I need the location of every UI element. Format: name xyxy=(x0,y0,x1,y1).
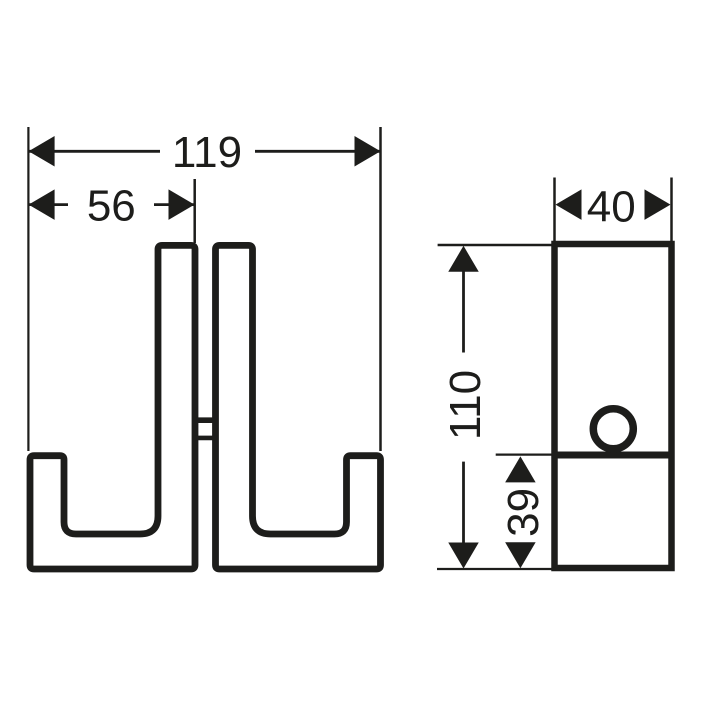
dimension 39 top arrow xyxy=(505,456,536,482)
dimension 110 bottom arrow xyxy=(448,543,479,569)
front view: right hook profile (mirror) xyxy=(216,245,381,569)
extension line top (110) xyxy=(438,244,556,247)
bridge bar lower xyxy=(195,436,216,441)
dimension 40 right arrow xyxy=(645,189,671,220)
dimension 56 right arrow xyxy=(169,189,195,220)
dimension 119 left arrow xyxy=(29,136,55,167)
svg-text:56: 56 xyxy=(87,181,136,230)
side view: divider line xyxy=(555,452,672,459)
extension line 40 right xyxy=(670,178,673,242)
svg-text:40: 40 xyxy=(587,182,636,231)
extension line for 56 xyxy=(193,179,196,243)
dimension 110 top arrow xyxy=(448,246,479,272)
extension line left (119/56) xyxy=(27,127,29,451)
dimension 40 left arrow xyxy=(556,189,582,220)
dimension 56 left arrow xyxy=(29,189,55,220)
front view: left hook profile xyxy=(30,245,195,569)
extension line divider (39) xyxy=(496,454,554,456)
extension line right (119) xyxy=(379,127,382,451)
side view: roller circle xyxy=(593,409,633,449)
dimension 110 line xyxy=(462,270,465,353)
dimension 39 bottom arrow xyxy=(505,542,536,568)
bridge bar upper (seen in gap between hooks) xyxy=(195,417,216,423)
extension line bottom (110/39) xyxy=(437,568,556,570)
dimension 119 line xyxy=(29,150,160,153)
dimension 56 line xyxy=(29,203,68,206)
side view: body rectangle xyxy=(555,244,672,568)
extension line 40 left xyxy=(553,178,556,242)
svg-text:110: 110 xyxy=(441,370,490,440)
svg-text:39: 39 xyxy=(499,488,548,537)
dimension 119 right arrow xyxy=(355,136,381,167)
svg-text:119: 119 xyxy=(172,128,242,177)
